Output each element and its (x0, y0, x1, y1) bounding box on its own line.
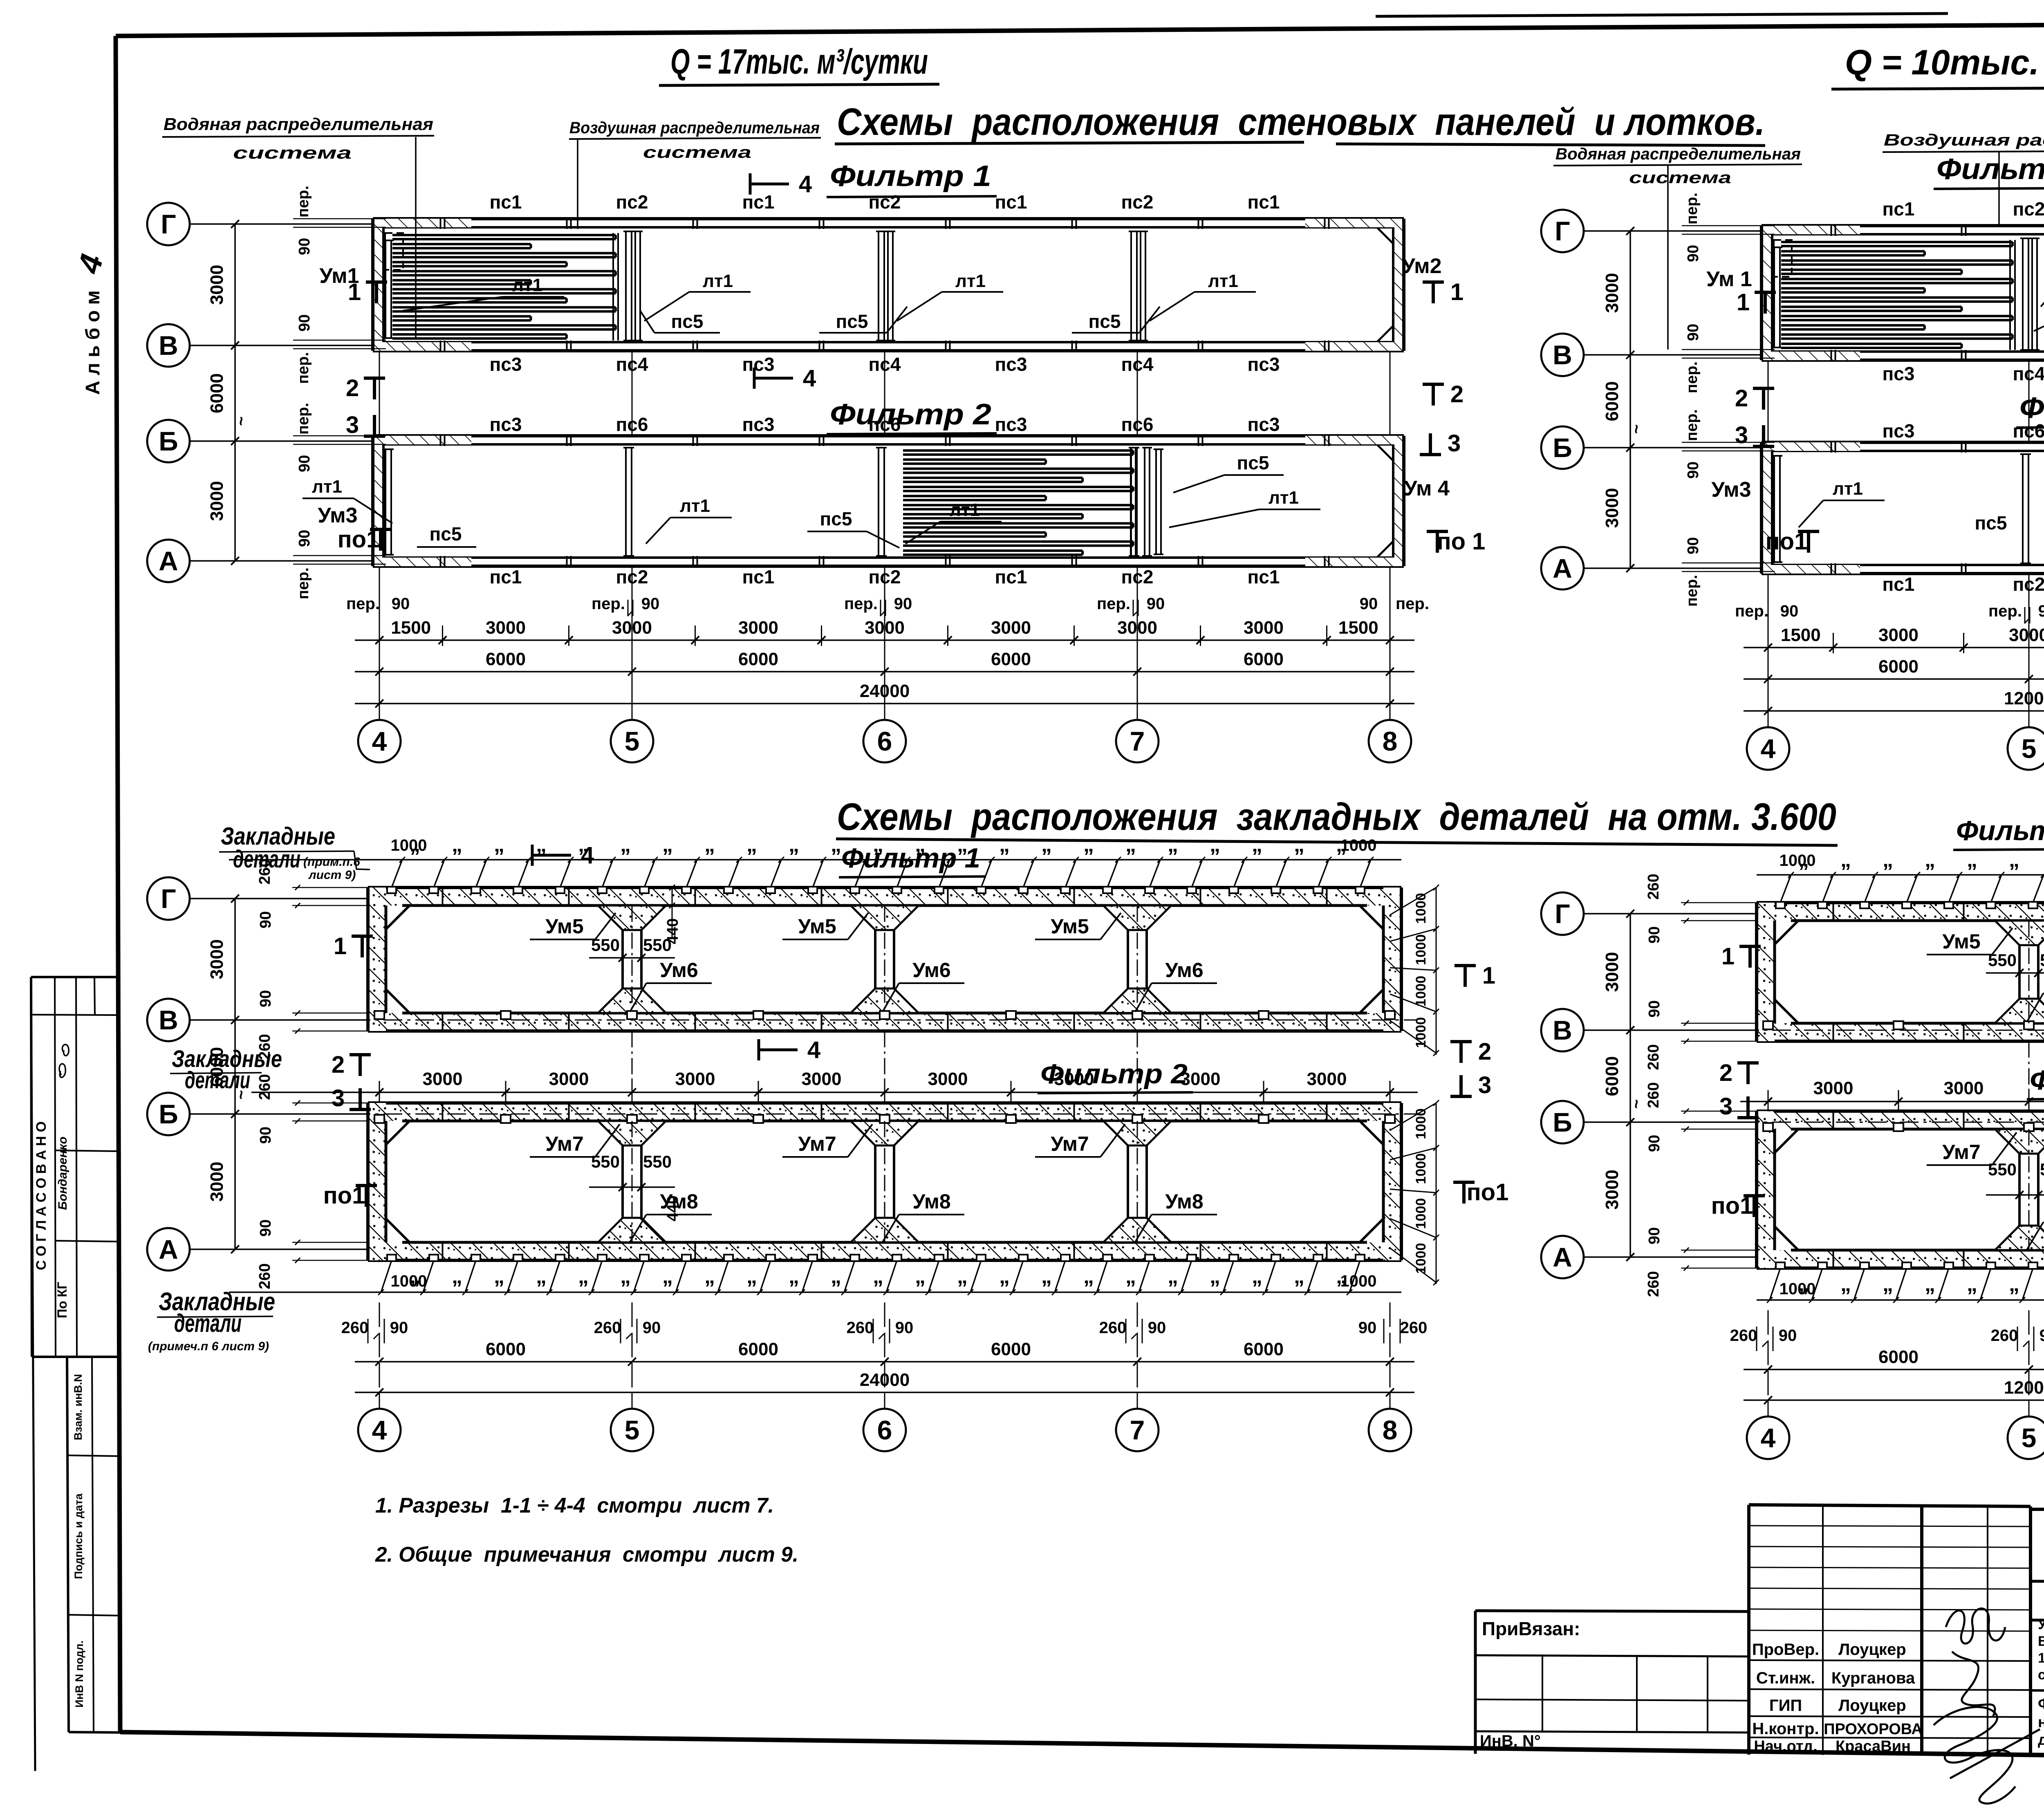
TL section-4 flag mid (753, 368, 756, 389)
svg-text:3000: 3000 (738, 618, 778, 638)
svg-text:6000: 6000 (1878, 1347, 1918, 1367)
svg-text:5: 5 (625, 726, 640, 756)
TR Q10 bottom chain 6000 (1744, 678, 2044, 680)
svg-text:„: „ (789, 833, 799, 856)
BL Tpo1 right (1453, 1181, 1475, 1184)
svg-text:Б: Б (159, 426, 178, 456)
TR Q10 F2 panel joints (1831, 441, 1832, 453)
svg-text:6000: 6000 (991, 649, 1031, 669)
svg-text:по1: по1 (323, 1182, 365, 1209)
svg-text:2: 2 (1719, 1060, 1732, 1086)
svg-text:пер.: пер. (295, 567, 312, 599)
svg-text:1500: 1500 (1781, 625, 1821, 645)
BR Q10 550 dims F2 (1986, 1194, 2044, 1196)
svg-text:А: А (159, 546, 178, 576)
svg-text:260: 260 (1400, 1319, 1428, 1337)
svg-text:пс1: пс1 (1883, 574, 1915, 595)
svg-text:90: 90 (1685, 245, 1702, 262)
svg-text:„: „ (915, 1264, 926, 1288)
svg-text:пер.: пер. (1683, 575, 1701, 607)
svg-text:система: система (643, 143, 751, 161)
svg-text:2: 2 (1735, 385, 1748, 412)
svg-text:1: 1 (1450, 279, 1464, 305)
svg-text:4: 4 (803, 365, 816, 392)
svg-text:лт1: лт1 (1269, 488, 1299, 508)
svg-text:~: ~ (232, 416, 250, 426)
svg-text:„: „ (831, 1264, 841, 1288)
TR section mark 1 left (1755, 291, 1776, 294)
svg-text:6000: 6000 (1602, 1056, 1622, 1096)
BR Q10 F1 wall bands hatched (1757, 903, 2044, 921)
svg-text:6000: 6000 (738, 649, 778, 669)
svg-text:„: „ (620, 833, 631, 856)
BL Q17 embedded plates on axis V (352, 1020, 1418, 1021)
svg-text:6000: 6000 (1244, 1339, 1284, 1359)
svg-text:В: В (159, 330, 178, 361)
title block verticals (1822, 1505, 1824, 1755)
svg-text:пс2: пс2 (869, 191, 901, 213)
svg-text:Ум7: Ум7 (1051, 1132, 1089, 1155)
svg-text:лист 9): лист 9) (308, 868, 356, 882)
TL Q17 bottom chain total (355, 703, 1414, 704)
svg-text:90: 90 (1646, 1000, 1663, 1018)
BR Q10 bottom chain 6000 (1744, 1369, 2044, 1370)
BL section-4 flag top (531, 845, 534, 866)
svg-text:6000: 6000 (1878, 657, 1918, 677)
svg-text:пер.: пер. (295, 403, 312, 435)
svg-text:„: „ (1210, 1264, 1220, 1288)
TL Q17 F2 panel joints (440, 435, 442, 446)
svg-text:Ст.инж.: Ст.инж. (1756, 1669, 1815, 1687)
BL Q17 F1 panel joint lines on bands (442, 888, 444, 905)
svg-text:Б: Б (1553, 433, 1572, 463)
svg-text:деталей на отм. 3.600: деталей на отм. 3.600 (2038, 1731, 2044, 1748)
svg-text:10тыс.м³/сутки. Н А П О Р Н А: 10тыс.м³/сутки. Н А П О Р Н А Я П О Д А … (2038, 1650, 2044, 1666)
svg-text:90: 90 (894, 595, 912, 613)
svg-text:„: „ (999, 1264, 1010, 1288)
BL Q17 F2 intermediate columns (623, 1121, 641, 1242)
BR Q10 F2 room corner chamfers (1775, 1129, 1798, 1153)
svg-text:„: „ (1840, 1272, 1851, 1296)
svg-text:„: „ (1883, 1272, 1893, 1296)
TR Q10 F1 corner hatch strips (1772, 226, 1860, 234)
svg-text:5: 5 (2022, 733, 2037, 764)
TR Q10 F1 trough bars at grids (2022, 238, 2024, 350)
svg-text:3000: 3000 (207, 481, 227, 521)
svg-text:3000: 3000 (1944, 1078, 1984, 1098)
BL T1 right (1455, 964, 1476, 967)
svg-text:6: 6 (877, 726, 892, 756)
svg-text:пс1: пс1 (1883, 198, 1915, 220)
svg-text:пс1: пс1 (995, 566, 1027, 587)
svg-text:260: 260 (1991, 1327, 2018, 1345)
TR section mark po1 left (1798, 530, 1819, 533)
TR Q10 F2 trough bars (1773, 456, 1775, 562)
svg-text:1000: 1000 (1413, 1243, 1429, 1274)
svg-text:по1: по1 (1711, 1192, 1753, 1219)
BL Q17 bottom chain total (355, 1392, 1414, 1393)
svg-text:2: 2 (332, 1051, 345, 1078)
svg-text:Лоуцкер: Лоуцкер (1838, 1697, 1906, 1715)
BR Q10 bottom edge plates and leaders (1757, 1299, 2044, 1301)
svg-text:„: „ (2009, 1272, 2019, 1296)
svg-text:система: система (233, 143, 352, 162)
svg-text:550: 550 (2040, 1160, 2044, 1179)
svg-text:пс3: пс3 (1248, 354, 1280, 375)
TL section mark T1 right (1423, 280, 1444, 284)
svg-text:пс2: пс2 (616, 191, 648, 213)
BR section mark 2 left (1737, 1061, 1759, 1065)
svg-text:„: „ (1168, 1264, 1178, 1288)
TL Q17 F2 trough bars (385, 449, 386, 555)
svg-text:90: 90 (257, 911, 274, 928)
svg-text:лт1: лт1 (1833, 479, 1863, 499)
svg-text:90: 90 (1646, 926, 1663, 944)
svg-text:„: „ (1840, 848, 1851, 872)
svg-text:1000: 1000 (1413, 976, 1429, 1007)
svg-text:Q = 17тыс. м³/сутки: Q = 17тыс. м³/сутки (670, 42, 928, 81)
svg-text:1000: 1000 (1413, 1153, 1429, 1184)
svg-text:пс3: пс3 (742, 414, 775, 435)
title block thin rows upper (1749, 1526, 2031, 1526)
svg-text:В: В (1553, 1015, 1572, 1045)
svg-text:6000: 6000 (486, 1339, 526, 1359)
TL section-4 flag top (749, 173, 752, 195)
svg-text:лт1: лт1 (512, 275, 542, 295)
BL section-4 flag mid (758, 1039, 760, 1060)
svg-text:3: 3 (346, 412, 359, 438)
svg-text:~: ~ (1627, 424, 1645, 434)
svg-text:А: А (159, 1234, 178, 1264)
svg-text:550: 550 (1988, 1160, 2017, 1179)
svg-text:6: 6 (877, 1415, 892, 1445)
svg-text:Фильтр 2: Фильтр 2 (1040, 1058, 1188, 1089)
svg-text:7: 7 (1130, 726, 1145, 756)
svg-text:„: „ (536, 1264, 547, 1288)
svg-text:4: 4 (1761, 733, 1776, 764)
svg-text:90: 90 (643, 1319, 661, 1337)
svg-text:90: 90 (2038, 602, 2044, 620)
svg-text:„: „ (1967, 848, 1977, 872)
svg-text:А: А (1553, 553, 1572, 583)
svg-text:Ум5: Ум5 (798, 915, 836, 938)
svg-text:Б: Б (1553, 1107, 1572, 1137)
svg-text:1000: 1000 (1413, 893, 1429, 924)
svg-text:Фильтр 1: Фильтр 1 (830, 160, 991, 193)
svg-text:„: „ (1294, 1264, 1304, 1288)
svg-text:3: 3 (1478, 1072, 1491, 1098)
BL Q17 bottom edge plates and leaders (229, 1291, 1401, 1293)
svg-text:1500: 1500 (1338, 618, 1378, 638)
BR Q10 bottom grid bubbles (1768, 1310, 1769, 1417)
BL Q17 550 dims F1 (589, 957, 675, 959)
svg-text:260: 260 (594, 1319, 621, 1337)
BR Q10 F1 panel joint lines on bands (1833, 903, 1834, 921)
svg-text:Схемы расположения стеновых: Схемы расположения стеновых панелей и ло… (837, 100, 1765, 143)
svg-text:3000: 3000 (207, 1162, 227, 1202)
svg-text:3000: 3000 (1244, 618, 1284, 638)
BR Q10 F2 panel joint lines on bands (1833, 1111, 1834, 1129)
svg-text:4: 4 (581, 842, 594, 869)
svg-text:пс5: пс5 (430, 523, 462, 545)
svg-text:пс1: пс1 (1248, 191, 1280, 213)
svg-text:3000: 3000 (423, 1069, 463, 1089)
svg-text:Ум 4: Ум 4 (1404, 477, 1450, 500)
svg-text:260: 260 (1645, 1271, 1662, 1297)
svg-text:90: 90 (1780, 602, 1799, 620)
svg-text:пер.: пер. (1683, 193, 1701, 224)
BR section mark 3 left (1737, 1116, 1759, 1119)
svg-text:система: система (1629, 169, 1731, 187)
TL Q17 F1 lotok bars at left wall (385, 240, 386, 338)
svg-text:лт1: лт1 (312, 477, 342, 497)
svg-text:1000: 1000 (1413, 1017, 1429, 1048)
BR Q10 grid axis dash-dot verticals (2028, 921, 2030, 1023)
TL section mark 3 left (364, 435, 385, 438)
frame top extra segment (1376, 13, 1948, 16)
svg-text:пер.: пер. (295, 352, 312, 384)
svg-text:По КГ: По КГ (55, 1282, 69, 1318)
svg-text:„: „ (746, 833, 757, 856)
svg-text:Взам. инВ.N: Взам. инВ.N (72, 1374, 84, 1440)
svg-text:пс5: пс5 (1089, 311, 1121, 332)
BR Q10 embedded plates on axis V (1740, 1030, 2044, 1031)
pravyazan inner table (1475, 1655, 1749, 1656)
svg-text:1000: 1000 (1413, 934, 1429, 965)
svg-text:6000: 6000 (1602, 381, 1622, 421)
svg-text:90: 90 (1646, 1135, 1663, 1152)
svg-text:А л ь б о м: А л ь б о м (82, 290, 104, 395)
svg-text:4: 4 (1761, 1423, 1776, 1453)
svg-text:12000: 12000 (2004, 688, 2044, 708)
svg-text:„: „ (1925, 848, 1935, 872)
svg-text:1: 1 (334, 933, 347, 959)
svg-text:3000: 3000 (991, 618, 1031, 638)
svg-text:пс3: пс3 (490, 414, 522, 435)
svg-text:6000: 6000 (1244, 649, 1284, 669)
svg-text:„: „ (494, 833, 504, 856)
svg-text:С О Г Л А С О В А Н О: С О Г Л А С О В А Н О (34, 1121, 49, 1270)
svg-text:Ум5: Ум5 (1942, 930, 1980, 953)
svg-text:260: 260 (341, 1319, 369, 1337)
svg-text:по1: по1 (1766, 528, 1808, 555)
svg-text:Ум8: Ум8 (660, 1190, 698, 1213)
svg-text:90: 90 (257, 1127, 274, 1144)
svg-text:Ум5: Ум5 (1051, 915, 1089, 938)
svg-text:550: 550 (643, 1152, 672, 1171)
BL Q17 F1 intermediate columns (623, 905, 641, 1013)
BL Q17 F2 room corner chamfers (386, 1121, 410, 1145)
svg-text:1000: 1000 (1413, 1108, 1429, 1139)
TR Q10 vertical dim chain (1629, 231, 1631, 568)
svg-text:детали: детали (185, 1067, 250, 1094)
svg-text:Фильтр 1: Фильтр 1 (1956, 815, 2044, 846)
svg-text:„: „ (662, 1264, 673, 1288)
BR po1 left (1744, 1194, 1765, 1197)
svg-text:4: 4 (372, 1415, 387, 1445)
svg-text:1: 1 (1737, 289, 1750, 316)
TL Q17 F1 trough bars at grids (625, 231, 627, 341)
svg-text:3: 3 (1448, 430, 1461, 457)
svg-text:8: 8 (1383, 726, 1398, 756)
svg-text:90: 90 (2040, 1327, 2044, 1345)
svg-text:пс2: пс2 (2013, 198, 2044, 220)
svg-text:Водяная распределительная: Водяная распределительная (1555, 145, 1801, 163)
svg-text:Ум2: Ум2 (1402, 254, 1441, 278)
svg-text:лт1: лт1 (703, 271, 733, 291)
svg-text:„: „ (662, 833, 673, 856)
svg-text:8: 8 (1383, 1415, 1398, 1445)
svg-text:Воздушная распределительная: Воздушная распределительная (1884, 131, 2044, 149)
BR Q10 vertical dim chain (1629, 914, 1631, 1257)
svg-text:1: 1 (1721, 943, 1735, 970)
BL Q17 grid axis dash-dot verticals (632, 905, 633, 1013)
TR section mark 3 left (1753, 445, 1774, 448)
svg-text:„: „ (578, 1264, 589, 1288)
svg-text:Г: Г (1555, 216, 1570, 246)
svg-text:лт1: лт1 (950, 500, 980, 520)
svg-text:Ум7: Ум7 (1942, 1141, 1980, 1163)
svg-text:лт1: лт1 (680, 496, 710, 516)
TL section mark T2 right (1423, 383, 1444, 386)
svg-text:пс1: пс1 (1248, 566, 1280, 587)
svg-text:6000: 6000 (991, 1339, 1031, 1359)
svg-text:Фильтры. Схемы расположения ст: Фильтры. Схемы расположения сте- (2038, 1695, 2044, 1712)
svg-text:5: 5 (625, 1415, 640, 1445)
svg-text:90: 90 (1685, 462, 1702, 479)
frame left border (116, 36, 120, 1732)
svg-text:3: 3 (1719, 1093, 1732, 1120)
BR Q10 3000 chain between filters (1740, 1101, 2044, 1103)
svg-text:90: 90 (296, 238, 313, 255)
TL Q17 F2 air distribution comb (903, 449, 1133, 452)
svg-text:пс5: пс5 (820, 508, 852, 529)
BL 3 right (1450, 1095, 1472, 1098)
svg-text:260: 260 (1730, 1327, 1757, 1345)
TR Q10 F1 water distribution comb (1781, 241, 2013, 243)
svg-text:90: 90 (1148, 1319, 1166, 1337)
sheet frame (116, 29, 1353, 36)
svg-text:3000: 3000 (486, 618, 526, 638)
svg-text:90: 90 (1147, 595, 1165, 613)
svg-text:пс5: пс5 (1237, 452, 1269, 473)
svg-text:„: „ (873, 1264, 883, 1288)
TR Q10 bottom chain small dims (1744, 647, 2044, 648)
svg-text:90: 90 (1685, 324, 1702, 341)
svg-text:~: ~ (1627, 1099, 1645, 1109)
svg-text:Фильтр 1: Фильтр 1 (841, 843, 980, 874)
svg-text:Ум3: Ум3 (1711, 478, 1751, 502)
svg-text:Ум 1: Ум 1 (1706, 267, 1752, 291)
BL Q17 F1 room corner chamfers (386, 905, 410, 929)
pravyazan box (1475, 1611, 1749, 1612)
svg-text:Бондаренко: Бондаренко (56, 1136, 69, 1210)
TL Q17 bottom grid bubbles (379, 640, 380, 720)
TL Q17 bottom chain 6000 (355, 671, 1414, 672)
svg-text:пс1: пс1 (490, 191, 522, 213)
svg-text:3000: 3000 (928, 1069, 968, 1089)
svg-text:90: 90 (296, 530, 313, 547)
TL section mark po1 left (370, 528, 391, 531)
svg-text:90: 90 (257, 1219, 274, 1237)
BL T2 right (1450, 1040, 1472, 1043)
svg-text:550: 550 (2040, 950, 2044, 970)
svg-text:1000: 1000 (1413, 1198, 1429, 1229)
svg-text:пс5: пс5 (1975, 512, 2007, 533)
svg-text:Г: Г (161, 209, 176, 239)
svg-text:12000: 12000 (2004, 1378, 2044, 1398)
svg-text:детали: детали (233, 845, 300, 873)
TL section mark 1 left (366, 280, 387, 284)
svg-text:„: „ (452, 1264, 462, 1288)
TL section mark 3 right (1420, 453, 1441, 456)
svg-text:лт1: лт1 (955, 271, 986, 291)
svg-text:90: 90 (1358, 1319, 1377, 1337)
TL section mark 2 left (364, 377, 385, 380)
svg-text:Г: Г (161, 883, 176, 914)
svg-text:„: „ (704, 1264, 715, 1288)
svg-text:4: 4 (807, 1037, 820, 1063)
svg-text:ПриВязан:: ПриВязан: (1482, 1618, 1580, 1639)
svg-text:пер.: пер. (1683, 361, 1701, 393)
BR Q10 F1 room corner chamfers (1775, 921, 1798, 944)
svg-text:„: „ (620, 1264, 631, 1288)
svg-text:пс3: пс3 (1248, 414, 1280, 435)
svg-text:7: 7 (1130, 1415, 1145, 1445)
svg-text:пс3: пс3 (995, 414, 1027, 435)
svg-text:пер.: пер. (1683, 409, 1701, 441)
svg-text:УстаноВка глубокой очустки сто: УстаноВка глубокой очустки сточных (2038, 1617, 2044, 1632)
BL Q17 F2 wall bands hatched (368, 1103, 1401, 1121)
svg-text:2: 2 (346, 375, 359, 401)
svg-text:пер.: пер. (1735, 602, 1768, 620)
svg-text:Лоуцкер: Лоуцкер (1838, 1641, 1906, 1659)
svg-text:ПроВер.: ПроВер. (1752, 1641, 1819, 1659)
svg-text:260: 260 (847, 1319, 874, 1337)
svg-text:пер.: пер. (295, 186, 312, 217)
svg-text:по1: по1 (338, 526, 380, 553)
svg-text:А: А (1553, 1242, 1572, 1272)
svg-text:Б: Б (159, 1099, 178, 1129)
svg-text:„: „ (536, 833, 547, 856)
svg-text:2: 2 (1450, 381, 1464, 408)
sidebar upper table (31, 976, 116, 978)
svg-text:пс3: пс3 (1883, 363, 1915, 384)
svg-text:В: В (1553, 340, 1572, 370)
BL Q17 550 dims F2 (589, 1186, 675, 1188)
TR Q10 F1 walls (1762, 224, 2044, 227)
BL Q17 bottom chain 6000 (355, 1361, 1414, 1363)
svg-text:пер.: пер. (346, 595, 380, 613)
svg-text:1000: 1000 (391, 1272, 427, 1290)
svg-text:1000: 1000 (1780, 1280, 1816, 1298)
svg-text:В: В (159, 1005, 178, 1035)
svg-text:по1: по1 (1467, 1179, 1509, 1206)
svg-text:„: „ (1883, 848, 1893, 872)
svg-text:Ум7: Ум7 (545, 1132, 583, 1155)
BR Q10 top edge plates and leaders (1757, 874, 2044, 876)
BL Q17 top edge plates and leaders (229, 859, 1401, 861)
TR section mark 2 left (1753, 387, 1774, 390)
svg-text:по 1: по 1 (1437, 528, 1486, 555)
BL Q17 F1 wall bands hatched (368, 888, 1401, 905)
svg-text:„: „ (1125, 1264, 1136, 1288)
svg-text:2. Общие примечания смотри: 2. Общие примечания смотри лист 9. (375, 1543, 798, 1567)
BR Q10 550 dims F1 (1986, 972, 2044, 974)
svg-text:ГИП: ГИП (1769, 1697, 1802, 1715)
svg-text:Ум6: Ум6 (660, 959, 698, 982)
svg-text:550: 550 (591, 1152, 620, 1171)
